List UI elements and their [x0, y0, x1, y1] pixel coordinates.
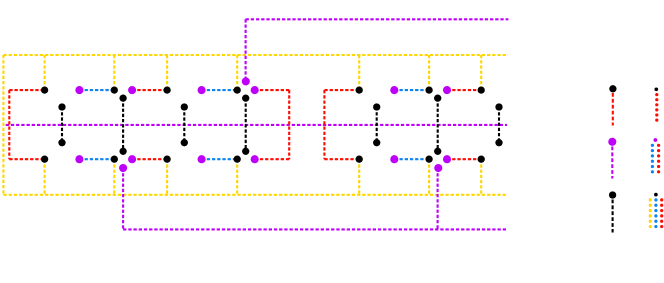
magenta bottom rail riser at x=438 — [437, 168, 439, 229]
yellow tooth bottom x=114.3 — [113, 159, 115, 195]
legend item 2: magenta site with magenta dashed leg — [608, 138, 616, 146]
yellow tooth bottom x=359.2 — [358, 159, 360, 195]
site dot top row x=167.1 black — [163, 86, 170, 93]
yellow tooth bottom x=44.6 — [44, 159, 46, 195]
blue bond bottom row 79.4-114.3 — [79, 158, 114, 160]
red right bracket top arm — [255, 89, 290, 91]
yellow bus: top horizontal rail — [3, 54, 508, 56]
legend item 3 expansion: small black dot over yellow, blue and red dot columns — [654, 193, 658, 197]
magenta dot below long dimer x=123.1 — [119, 164, 127, 172]
yellow tooth top x=44.6 — [44, 55, 46, 90]
blue bond top row 201.6-237.2 — [202, 89, 238, 91]
yellow tooth top x=237.2 — [236, 55, 238, 90]
yellow tooth top x=429.1 — [428, 55, 430, 90]
site dot bottom row x=201.6 magenta — [198, 155, 206, 163]
site dot bottom row x=114.3 black — [111, 156, 118, 163]
red mid-left bracket top arm — [324, 89, 359, 91]
red right bracket bottom arm — [255, 158, 290, 160]
site dot bottom row x=237.2 black — [234, 156, 241, 163]
yellow tooth bottom x=167.1 — [166, 159, 168, 195]
magenta top rail drop to dot — [245, 19, 247, 81]
magenta dot below long dimer x=437.7 — [434, 164, 442, 172]
black long dimer x=123.1 — [122, 98, 124, 151]
red bond bottom row 132.1-167.1 — [132, 158, 167, 160]
site dot bottom row x=429.1 black — [425, 156, 432, 163]
yellow tooth top x=167.1 — [166, 55, 168, 90]
site dot top row x=254.7 magenta — [251, 86, 259, 94]
red mid-left bracket vertical — [323, 90, 325, 159]
blue bond top row 79.4-114.3 — [79, 89, 114, 91]
yellow tooth top x=114.3 — [113, 55, 115, 90]
yellow tooth bottom x=429.1 — [428, 159, 430, 195]
red left bracket bottom arm — [9, 158, 44, 160]
red bond top row 132.1-167.1 — [132, 89, 167, 91]
magenta top rail horizontal — [246, 18, 509, 20]
site dot top row x=481.2 black — [478, 86, 485, 93]
legend item 2 expansion: small magenta dot over blue and red dot columns — [654, 138, 658, 142]
site dot top row x=132.1 magenta — [128, 86, 136, 94]
black short dimer x=499 — [498, 107, 500, 143]
site dot bottom row x=254.7 magenta — [251, 155, 259, 163]
blue bond top row 394.3-429.1 — [394, 89, 429, 91]
site dot bottom row x=79.4 magenta — [75, 155, 83, 163]
black short dimer x=62 — [61, 107, 63, 143]
site dot top row x=79.4 magenta — [75, 86, 83, 94]
site dot top row x=114.3 black — [111, 86, 118, 93]
site dot bottom row x=132.1 magenta — [128, 155, 136, 163]
site dot top row x=44.6 black — [41, 86, 48, 93]
site dot bottom row x=167.1 black — [163, 156, 170, 163]
red right bracket vertical — [288, 90, 290, 159]
magenta bottom rail riser at x=123 — [122, 168, 124, 229]
site dot top row x=201.6 magenta — [198, 86, 206, 94]
site dot top row x=429.1 black — [425, 86, 432, 93]
red left bracket top arm — [9, 89, 44, 91]
legend item 3: black site with black dashed leg — [609, 191, 616, 198]
red bond top row 447-481.2 — [447, 89, 481, 91]
magenta middle horizontal rail — [6, 124, 507, 126]
site dot top row x=237.2 black — [234, 86, 241, 93]
site dot top row x=359.2 black — [356, 86, 363, 93]
red left bracket vertical — [8, 90, 10, 159]
yellow bus: bottom horizontal rail — [3, 194, 507, 196]
yellow tooth top x=359.2 — [358, 55, 360, 90]
site dot bottom row x=447 magenta — [443, 155, 451, 163]
site dot bottom row x=44.6 black — [41, 156, 48, 163]
site dot top row x=394.3 magenta — [390, 86, 398, 94]
yellow tooth top x=481.2 — [480, 55, 482, 90]
yellow tooth bottom x=237.2 — [236, 159, 238, 195]
magenta dot above long dimer x=245.7 — [242, 77, 250, 85]
site dot bottom row x=481.2 black — [478, 156, 485, 163]
magenta bottom rail horizontal — [123, 228, 506, 230]
black short dimer x=376.7 — [376, 107, 378, 143]
site dot bottom row x=394.3 magenta — [390, 155, 398, 163]
red mid-left bracket bottom arm — [324, 158, 359, 160]
blue bond bottom row 201.6-237.2 — [202, 158, 238, 160]
red bond bottom row 447-481.2 — [447, 158, 481, 160]
yellow tooth bottom x=481.2 — [480, 159, 482, 195]
yellow bus: left vertical rail — [2, 55, 4, 195]
legend item 1 expansion: small black dot over red dot column — [654, 87, 658, 91]
site dot top row x=447 magenta — [443, 86, 451, 94]
black long dimer x=437.7 — [437, 98, 439, 151]
blue bond bottom row 394.3-429.1 — [394, 158, 429, 160]
black short dimer x=184.3 — [183, 107, 185, 143]
site dot bottom row x=359.2 black — [356, 156, 363, 163]
black long dimer x=245.7 — [245, 98, 247, 151]
legend item 1: black site with red dashed leg — [609, 85, 616, 92]
